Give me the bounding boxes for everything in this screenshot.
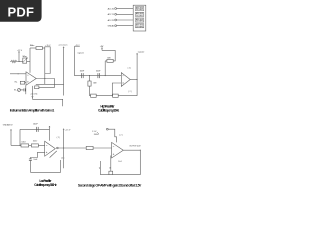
- resistor R6 box: [107, 59, 113, 62]
- svg-text:+15 V: +15 V: [45, 45, 51, 47]
- svg-text:(2): (2): [128, 91, 132, 93]
- PDF badge: [0, 0, 42, 22]
- wire lead row3: [117, 19, 134, 21]
- op-amp +/- marks: [27, 75, 124, 155]
- svg-text:100nF: 100nF: [80, 70, 85, 72]
- capacitor C4: [36, 127, 38, 132]
- svg-text:+15 V: +15 V: [75, 45, 81, 47]
- junction dots: [18, 61, 141, 151]
- node J-b: [18, 73, 19, 74]
- resistor R9 box: [86, 146, 93, 149]
- svg-text:5V REF2: 5V REF2: [136, 15, 143, 17]
- wire y84.3: [36, 83, 64, 85]
- connector row 2 cell: [135, 12, 143, 16]
- resistor R8 box: [31, 144, 38, 147]
- capacitor C3: [97, 73, 99, 78]
- wire feedback top: [102, 50, 115, 61]
- svg-text:ACC Y1: ACC Y1: [108, 13, 115, 16]
- op-amp U3: [45, 141, 56, 156]
- connector row 1 cell: [135, 7, 143, 11]
- node J-f: [112, 95, 113, 96]
- resistor R4 vertical box: [88, 81, 91, 86]
- svg-text:precision: precision: [59, 45, 68, 47]
- svg-text:signal2: signal2: [138, 52, 145, 54]
- svg-text:signal1: signal1: [77, 52, 84, 54]
- wire rail A: [45, 47, 50, 85]
- svg-text:100nF: 100nF: [33, 124, 39, 126]
- op-amp U2: [121, 73, 130, 87]
- wire U4 output: [123, 149, 140, 151]
- svg-text:(2): (2): [128, 67, 132, 69]
- wire R3 right to riser: [39, 79, 55, 88]
- wire supply arrow HPF: [101, 48, 103, 50]
- wire out rail stage2: [100, 150, 140, 174]
- capacitor C1 small: [23, 88, 25, 91]
- wire branch down x89.5: [89, 76, 91, 81]
- node J-h: [19, 145, 20, 146]
- svg-text:Second stage OP-AMP with gain: Second stage OP-AMP with gain 201 and of…: [78, 184, 142, 188]
- svg-text:1MO: 1MO: [93, 82, 97, 84]
- wire HPF bottom: [90, 95, 138, 97]
- svg-text:GND A1: GND A1: [108, 25, 115, 28]
- wire lower fb stage2: [110, 156, 112, 172]
- node pin2: [115, 13, 117, 15]
- svg-text:+15 Vdc: +15 Vdc: [30, 94, 37, 96]
- connector block J1 outer box: [133, 5, 146, 31]
- svg-text:100nF: 100nF: [96, 70, 101, 72]
- resistor R10 box: [109, 171, 113, 174]
- wire left stub: [99, 161, 101, 175]
- svg-text:1 kOhm: 1 kOhm: [22, 56, 27, 58]
- svg-text:10 kOhm: 10 kOhm: [30, 45, 35, 47]
- node pin1: [115, 8, 117, 10]
- connector cell inner text: [136, 6, 144, 28]
- resistor R3 box: [35, 86, 39, 89]
- resistor R1 zigzag: [10, 60, 19, 62]
- wire fb riser x20: [19, 129, 21, 145]
- svg-text:Instrumentation Amplifier with: Instrumentation Amplifier with Gain x1: [10, 109, 55, 113]
- op-amp U4: [112, 142, 124, 158]
- svg-text:GND AIN 5V: GND AIN 5V: [3, 124, 13, 127]
- node LPF out: [57, 147, 59, 149]
- wire offset branch: [108, 129, 116, 142]
- wire HPF main: [74, 75, 121, 77]
- node pin3: [115, 19, 117, 21]
- svg-text:(2): (2): [119, 134, 123, 136]
- svg-text:10kO: 10kO: [33, 141, 38, 143]
- tiny component labels: [3, 7, 145, 163]
- svg-text:+15 V: +15 V: [65, 130, 71, 132]
- wire rail E stage2: [63, 129, 65, 168]
- node J-d: [89, 75, 90, 76]
- resistor R2 box top: [36, 47, 42, 50]
- svg-text:10kO: 10kO: [21, 141, 26, 143]
- svg-text:5V REF4: 5V REF4: [136, 26, 143, 28]
- wire fb drop x49.5: [49, 129, 51, 140]
- ground arrow mark: [32, 96, 34, 97]
- resistor R7 box: [21, 144, 29, 147]
- resistor R11 box on bottom: [91, 94, 97, 97]
- wire U1 output: [36, 78, 54, 80]
- node J-i: [63, 147, 64, 148]
- wire riser x30: [29, 48, 31, 62]
- wire U2 output: [130, 79, 137, 81]
- svg-text:1kO: 1kO: [118, 161, 122, 163]
- svg-text:Cut off frequency: 30Hz: Cut off frequency: 30Hz: [98, 108, 119, 112]
- wire fb top LPF: [20, 128, 50, 130]
- wire diagonal fb: [50, 151, 57, 158]
- wire feedback drop: [104, 61, 106, 76]
- svg-text:5V REF1: 5V REF1: [136, 9, 143, 11]
- wire input top: [10, 73, 26, 75]
- node J-j: [140, 150, 141, 151]
- svg-text:+15 V: +15 V: [17, 50, 23, 52]
- wire interstage: [58, 147, 86, 149]
- svg-text:PDF: PDF: [7, 5, 34, 20]
- source V1 circle: [18, 89, 21, 92]
- svg-text:(2): (2): [61, 157, 65, 159]
- svg-text:200kO: 200kO: [94, 134, 100, 136]
- wire riser x60.7: [60, 160, 62, 172]
- node offset: [106, 128, 108, 130]
- node J-a: [18, 61, 19, 62]
- svg-text:(2): (2): [57, 137, 61, 139]
- svg-text:5V REF3: 5V REF3: [136, 21, 143, 23]
- wire lead row4: [117, 25, 134, 27]
- wire riser to input: [29, 62, 31, 73]
- svg-text:ACC Z1: ACC Z1: [108, 19, 115, 22]
- trimmer RG box: [23, 58, 27, 63]
- capacitor C2: [81, 73, 83, 78]
- source box B1: [20, 81, 24, 84]
- offset tick: [97, 132, 99, 134]
- wire LPF in horizontal: [11, 144, 21, 146]
- wire rail D: [74, 47, 79, 76]
- wire rail C: [63, 47, 65, 95]
- wire LPF input arrow: [10, 130, 12, 146]
- node pin4: [115, 25, 117, 27]
- svg-text:IN-: IN-: [14, 89, 17, 91]
- wire x25.8 vertical: [25, 85, 27, 94]
- resistor R5 box on bottom: [113, 94, 119, 97]
- svg-text:1MO: 1MO: [107, 58, 111, 60]
- wire bottom elbow: [32, 99, 62, 106]
- node J-c: [44, 78, 45, 79]
- svg-text:ACC X1: ACC X1: [108, 7, 115, 10]
- wire output rail: [136, 54, 138, 96]
- wire +15V arrow vertical (inst amp): [18, 52, 20, 62]
- node J-e: [105, 75, 106, 76]
- op-amp U1: [26, 72, 36, 85]
- wire LPF bottom: [30, 171, 60, 173]
- wire lead row2: [117, 13, 134, 15]
- svg-text:1.5V: 1.5V: [92, 131, 97, 133]
- wire lead row1: [117, 8, 134, 10]
- capacitor C5: [29, 158, 32, 160]
- wire plus input U3: [30, 152, 44, 159]
- connector row 3 cell: [135, 18, 143, 22]
- wire plus input: [112, 83, 121, 96]
- node J-g: [137, 79, 138, 80]
- svg-text:Cut off frequency: 500Hz: Cut off frequency: 500Hz: [34, 183, 57, 187]
- captions: [10, 105, 142, 188]
- svg-text:OUTPUT 0-3V: OUTPUT 0-3V: [129, 145, 141, 147]
- connector row 4 cell: [135, 24, 143, 28]
- wire below triangle: [31, 86, 33, 99]
